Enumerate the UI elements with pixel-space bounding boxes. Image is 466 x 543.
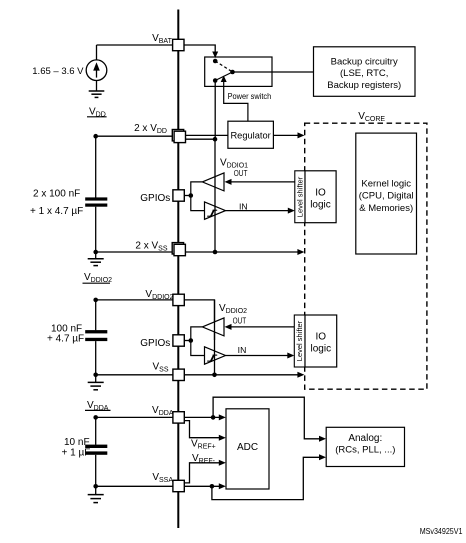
svg-text:OUT: OUT bbox=[233, 317, 247, 326]
wire VDDA left bbox=[96, 416, 178, 418]
wire VSSA to analog bbox=[212, 457, 322, 499]
wire to IN1 buffer bbox=[191, 196, 205, 211]
regulator box bbox=[228, 121, 274, 148]
wire VDDIO1 rail through buffers bbox=[214, 139, 216, 252]
node GPIO1 junction bbox=[189, 193, 194, 198]
node VDD junction bbox=[93, 134, 98, 139]
svg-text:IO: IO bbox=[315, 188, 326, 199]
svg-text:Kernel logic: Kernel logic bbox=[361, 178, 411, 189]
wire VREF+ stub bbox=[185, 421, 222, 438]
battery source lead bottom bbox=[96, 81, 98, 92]
ground under battery bbox=[89, 91, 105, 97]
pin 2xVDD bbox=[172, 130, 183, 141]
wire VDDIO2 left bbox=[96, 299, 178, 301]
arrow into OUT1 buffer bbox=[225, 179, 232, 185]
wire VSS1 to VCORE bbox=[185, 251, 301, 253]
wire VDDIO2 rail through buffers bbox=[214, 300, 216, 375]
analog box bbox=[326, 427, 404, 466]
output buffer 1 bbox=[202, 173, 224, 191]
node VDDIO1-VDD junction bbox=[213, 137, 218, 142]
wire cap2 bottom lead bbox=[95, 341, 97, 375]
svg-text:logic: logic bbox=[311, 344, 332, 355]
node VDDA junction bbox=[93, 415, 98, 420]
arrow into OUT2 buffer bbox=[225, 324, 232, 330]
arrow VREF+ into ADC bbox=[219, 435, 226, 441]
node GPIO2 junction bbox=[189, 338, 194, 343]
arrow VSSA into analog bbox=[319, 454, 326, 460]
battery voltage source B1 bbox=[86, 60, 107, 81]
capacitor C3 10nF+1uF bbox=[85, 445, 107, 448]
svg-text:ADC: ADC bbox=[237, 442, 258, 453]
wire VBAT to switch bbox=[179, 45, 216, 53]
wire OUT2 from level shifter bbox=[228, 326, 294, 328]
power switch common pole bbox=[230, 70, 235, 75]
wire switch to backup circuitry bbox=[233, 71, 314, 73]
wire VSSA left bbox=[96, 485, 178, 487]
svg-text:Power switch: Power switch bbox=[228, 92, 272, 101]
wire VDDIO1 rail upper bbox=[214, 81, 216, 140]
pin VDDIO2 bbox=[173, 294, 184, 305]
svg-text:logic: logic bbox=[310, 200, 331, 211]
VCORE dashed domain box bbox=[305, 123, 427, 389]
svg-text:& Memories): & Memories) bbox=[359, 203, 413, 214]
pin VSSA bbox=[173, 480, 184, 491]
arrow VDDA into ADC bbox=[219, 414, 226, 420]
IO logic box 1 bbox=[305, 171, 336, 223]
wire IN2 to level shifter bbox=[226, 355, 291, 357]
output buffer 2 bbox=[202, 318, 224, 336]
wire VSS2 to VCORE bbox=[185, 374, 301, 376]
svg-text:IN: IN bbox=[238, 346, 247, 355]
svg-text:Backup circuitry: Backup circuitry bbox=[331, 56, 398, 67]
MCU pin rail bbox=[177, 10, 179, 529]
pin GPIOs2 bbox=[173, 335, 184, 346]
svg-text:(LSE, RTC,: (LSE, RTC, bbox=[340, 68, 388, 79]
svg-text:IO: IO bbox=[316, 332, 327, 343]
pin VSS2 bbox=[173, 369, 184, 380]
wire VSSA to ADC bbox=[185, 485, 222, 487]
node VDDA-ADC junction bbox=[211, 415, 216, 420]
input schmitt buffer 1 bbox=[205, 202, 226, 219]
battery source lead top bbox=[96, 45, 98, 60]
wire cap1 top lead bbox=[95, 136, 97, 197]
svg-text:Level shifter: Level shifter bbox=[295, 320, 304, 361]
wire cap3 top lead bbox=[95, 417, 97, 444]
svg-text:(RCs, PLL, ...): (RCs, PLL, ...) bbox=[335, 444, 395, 455]
wire OUT1 from level shifter bbox=[228, 181, 295, 183]
power switch contact VDD bbox=[213, 78, 218, 83]
capacitor C2 100nF+4.7uF bbox=[85, 330, 107, 333]
node VSSA junction bbox=[93, 484, 98, 489]
wire to OUT1 buffer bbox=[191, 182, 203, 196]
wire VSS2 left bbox=[96, 374, 178, 376]
power switch dashed throw bbox=[215, 61, 232, 72]
pin 2xVSS bbox=[172, 243, 183, 254]
pin VDDA bbox=[173, 412, 184, 423]
svg-text:GPIOs: GPIOs bbox=[140, 338, 170, 349]
arrow into level shifter IN2 bbox=[287, 353, 294, 359]
node VDDIO2-VSS junction bbox=[212, 373, 217, 378]
svg-text:Level shifter: Level shifter bbox=[295, 176, 304, 217]
wire VSS1 left bbox=[96, 251, 178, 253]
svg-text:IN: IN bbox=[239, 203, 248, 212]
pin GPIOs1 bbox=[173, 190, 184, 201]
svg-text:MSv34925V1: MSv34925V1 bbox=[420, 527, 463, 536]
wire to OUT2 buffer bbox=[191, 327, 203, 341]
node VSSA-ADC junction bbox=[210, 484, 215, 489]
wire cap3 bottom lead bbox=[95, 455, 97, 487]
svg-text:1.65 – 3.6 V: 1.65 – 3.6 V bbox=[32, 66, 84, 77]
wire VREF- stub bbox=[185, 463, 222, 483]
node VSS2 junction bbox=[93, 373, 98, 378]
wire VDD left bbox=[96, 135, 178, 137]
svg-text:+ 1 x 4.7 µF: + 1 x 4.7 µF bbox=[30, 206, 83, 217]
level shifter box 1 bbox=[295, 171, 305, 223]
wire cap1 bottom lead bbox=[95, 207, 97, 252]
wire GPIO2 to buffers bbox=[185, 340, 191, 342]
schmitt symbol 2 bbox=[207, 360, 212, 362]
arrow VREF- into ADC bbox=[219, 460, 226, 466]
svg-text:+ 4.7 µF: + 4.7 µF bbox=[47, 333, 84, 344]
arrow into switch wiper bbox=[221, 76, 227, 83]
arrow VDDA into analog bbox=[319, 436, 326, 442]
ground at VSS1 bbox=[95, 252, 97, 259]
svg-text:Backup registers): Backup registers) bbox=[327, 80, 401, 91]
wire regulator to switch bbox=[224, 80, 248, 122]
wire GPIO1 to buffers bbox=[185, 195, 191, 197]
backup circuitry box U-backup bbox=[314, 47, 416, 97]
node VSS1 junction bbox=[93, 250, 98, 255]
svg-text:Regulator: Regulator bbox=[230, 130, 270, 140]
ADC box bbox=[226, 409, 269, 489]
power switch contact VBAT bbox=[213, 59, 218, 64]
wire to IN2 buffer bbox=[191, 341, 205, 356]
node VDDIO2 junction bbox=[93, 298, 98, 303]
pin VBAT bbox=[173, 39, 184, 50]
arrow VSSA into ADC bbox=[219, 483, 226, 489]
svg-text:GPIOs: GPIOs bbox=[140, 193, 170, 204]
arrow into level shifter IN1 bbox=[288, 208, 295, 214]
capacitor C1 2x100nF+1x4.7uF bbox=[85, 197, 107, 200]
input schmitt buffer 2 bbox=[205, 347, 226, 364]
arrow into switch top bbox=[212, 52, 218, 59]
wire VDDA to ADC bbox=[185, 416, 222, 418]
wire VDD to VDDIO1 rail bbox=[185, 138, 216, 140]
wire VDD to regulator bbox=[185, 134, 228, 136]
wire IN1 to level shifter bbox=[226, 210, 292, 212]
schmitt symbol 1 bbox=[207, 215, 212, 217]
kernel logic box bbox=[356, 133, 417, 254]
power switch box bbox=[205, 57, 272, 86]
power switch wiper bbox=[215, 72, 232, 81]
arrow VSS1 into VCORE bbox=[297, 249, 304, 255]
svg-text:+ 1 µF: + 1 µF bbox=[62, 447, 91, 458]
level shifter box 2 bbox=[294, 315, 305, 367]
ground at VSSA bbox=[95, 486, 97, 494]
ground at VSS2 bbox=[95, 375, 97, 383]
wire regulator to VCORE bbox=[273, 134, 300, 136]
arrow VSS2 into VCORE bbox=[297, 372, 304, 378]
svg-text:(CPU, Digital: (CPU, Digital bbox=[359, 191, 414, 202]
IO logic box 2 bbox=[305, 315, 337, 367]
wire VDDIO2 to rail2 bbox=[185, 300, 215, 340]
node VDDIO1-VSS junction bbox=[213, 250, 218, 255]
wire VBAT left bbox=[97, 44, 179, 46]
svg-text:OUT: OUT bbox=[234, 169, 248, 178]
svg-text:2 x 100 nF: 2 x 100 nF bbox=[33, 189, 80, 200]
wire cap2 top lead bbox=[95, 300, 97, 330]
arrow into VCORE regulator bbox=[298, 132, 305, 138]
wire VDDA to analog bbox=[213, 397, 321, 439]
svg-text:Analog:: Analog: bbox=[348, 433, 382, 444]
